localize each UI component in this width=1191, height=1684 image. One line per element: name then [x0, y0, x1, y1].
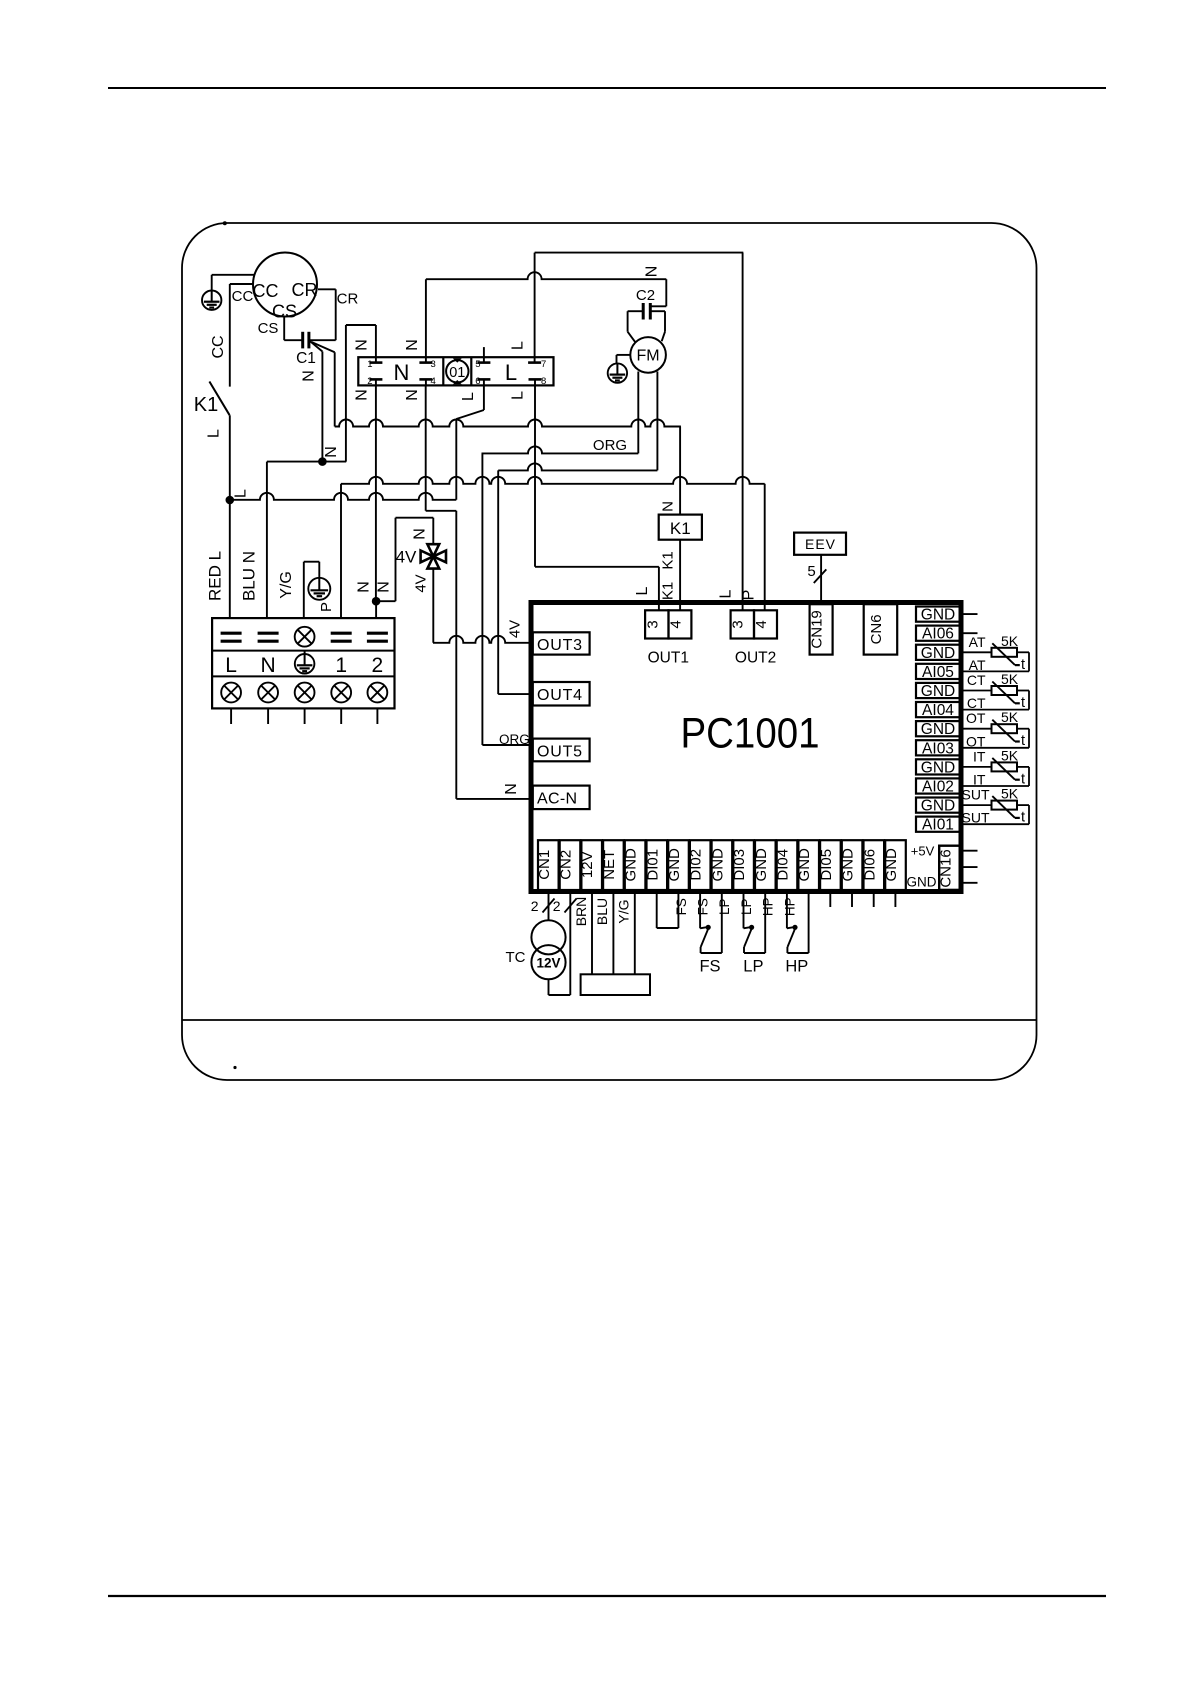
wire FM-right to OUT4 upper [498, 463, 657, 470]
pin 4 [419, 376, 435, 387]
svg-text:5K: 5K [1001, 633, 1019, 649]
pin box AI05 r3 [916, 664, 960, 681]
pin box OUT2-4 [753, 610, 777, 638]
svg-text:DI03: DI03 [731, 849, 748, 881]
svg-text:N: N [503, 783, 520, 795]
svg-text:K1: K1 [660, 551, 677, 569]
label YG pin [616, 899, 632, 923]
svg-text:t: t [1021, 810, 1025, 826]
pin box NET b3 [601, 840, 624, 890]
wire FM left down [637, 372, 639, 454]
pin box GND r8 [916, 759, 960, 776]
terminal strip N-01-L box [358, 357, 553, 385]
label N pin3 [404, 339, 421, 351]
svg-text:K1: K1 [660, 582, 677, 600]
pin box DI06 b15 [861, 840, 884, 890]
label K1 rotated lower [660, 582, 677, 600]
switch LP [743, 891, 765, 976]
pin box OUT1-3 [644, 610, 668, 638]
label BLU pin [594, 898, 610, 925]
pin box CN19 [809, 604, 833, 654]
label ORG at OUT5 [499, 732, 530, 747]
svg-text:AI04: AI04 [922, 702, 954, 719]
svg-text:ORG: ORG [499, 732, 530, 747]
svg-text:NET: NET [601, 850, 618, 880]
svg-text:DI01: DI01 [644, 849, 661, 881]
label BLU N [240, 551, 259, 601]
wire BRN [591, 891, 593, 974]
wire top bus to OUT2-3 [742, 253, 744, 611]
svg-text:AT: AT [969, 634, 986, 650]
wire FM-right vertical [497, 470, 499, 694]
terminal block body [212, 618, 394, 708]
label P rotated [318, 602, 335, 612]
wire pin6 down [456, 385, 484, 499]
page bottom rule [108, 1595, 1106, 1597]
wire TC bottom loop [549, 979, 571, 995]
terminal stubs below [231, 708, 377, 724]
wire pin8 route to OUT1-3 [535, 385, 659, 610]
terminal screws row3 [221, 683, 387, 703]
thermistor AT 5K [960, 633, 1029, 673]
wire bus L3 [230, 493, 456, 500]
svg-text:CC: CC [210, 335, 227, 358]
label 4V rotated [413, 574, 430, 592]
EEV box [794, 533, 846, 555]
svg-text:AI02: AI02 [922, 779, 954, 796]
CN16 stubs [961, 851, 978, 883]
svg-text:HP: HP [782, 897, 797, 916]
pin box CN16 [938, 846, 961, 890]
label ORG upper [593, 437, 627, 454]
label L at OUT2-3 [718, 589, 735, 598]
svg-text:N: N [356, 581, 373, 593]
label BRN [573, 897, 589, 927]
svg-text:CN1: CN1 [536, 850, 553, 880]
pin box AI02 r9 [916, 778, 960, 795]
indicator 01 circle [446, 358, 468, 384]
pin box DI04 b11 [775, 840, 798, 890]
wire CR from motor [318, 289, 336, 340]
svg-text:4: 4 [431, 376, 436, 387]
pin box CN6 [864, 604, 898, 654]
svg-text:OUT1: OUT1 [648, 650, 689, 667]
svg-text:CN2: CN2 [558, 850, 575, 880]
wire pin2 down [375, 385, 377, 601]
pin 5 [475, 347, 490, 370]
label L pin6 [460, 392, 477, 401]
connector bar [581, 974, 650, 995]
svg-text:LP: LP [739, 898, 754, 915]
wire valve down to OUT3 bus [432, 569, 434, 643]
label N valve [412, 528, 429, 540]
svg-text:t: t [1021, 733, 1025, 749]
svg-text:L: L [718, 589, 735, 598]
svg-text:5K: 5K [1001, 747, 1019, 763]
svg-text:L: L [233, 489, 250, 498]
svg-text:OT: OT [966, 733, 986, 749]
wire BLU pin [612, 891, 614, 974]
svg-text:1: 1 [367, 359, 372, 370]
page top rule [108, 87, 1106, 89]
terminal lamp symbol row1 [295, 627, 315, 647]
label N at junction dot [323, 446, 340, 458]
svg-text:GND: GND [753, 848, 770, 882]
wire pin2 to terminal 2 [375, 601, 377, 618]
svg-text:SUT: SUT [962, 810, 990, 826]
svg-text:N: N [644, 266, 661, 278]
svg-text:DI06: DI06 [861, 849, 878, 881]
pin 3 [419, 357, 435, 370]
pin box GND b6 [666, 840, 689, 890]
svg-text:GND: GND [709, 848, 726, 882]
pin box CN2 b1 [558, 840, 581, 890]
svg-text:7: 7 [541, 359, 546, 370]
svg-text:N: N [354, 339, 371, 351]
pin box CN1 b0 [536, 840, 559, 890]
wire AC-N branch [426, 511, 457, 799]
pin box GND b10 [753, 840, 776, 890]
capacitor C2 [636, 287, 655, 320]
svg-text:N: N [376, 581, 393, 593]
stub GND b14 [851, 893, 853, 907]
svg-text:FS: FS [674, 898, 689, 915]
wire BLU down [266, 462, 268, 618]
terminal clamp symbols [221, 633, 388, 641]
svg-text:BLU N: BLU N [240, 551, 259, 601]
switch HP [785, 891, 808, 976]
label N at C2 [644, 266, 661, 278]
svg-text:OUT3: OUT3 [537, 637, 583, 654]
svg-text:Y/G: Y/G [278, 571, 295, 599]
enclosure rounded border [182, 221, 1037, 1080]
wire C2 to FM right [651, 311, 665, 341]
label N pin2 [354, 389, 371, 401]
svg-text:Y/G: Y/G [616, 899, 632, 923]
wire pin4 down [425, 385, 427, 510]
pin box DI02 b7 [688, 840, 711, 890]
wire to K1 coil [679, 427, 681, 515]
junction dot pin2 [372, 597, 381, 606]
svg-text:DI05: DI05 [818, 849, 835, 881]
svg-text:OUT4: OUT4 [537, 687, 583, 704]
compressor motor M (CC/CR/CS) [253, 253, 318, 322]
relay coil K1 [659, 515, 702, 540]
svg-text:GND: GND [796, 848, 813, 882]
thermistor SUT 5K [960, 786, 1029, 826]
svg-text:FS: FS [696, 898, 711, 915]
svg-text:CS: CS [258, 320, 279, 337]
pin box DI03 b9 [731, 840, 754, 890]
slash 2 CN2 [553, 898, 577, 914]
svg-text:N: N [301, 370, 318, 382]
wire CC from motor [230, 284, 253, 387]
switch K1 contact [209, 382, 229, 501]
wire N bus to C2 [426, 272, 666, 279]
svg-text:5K: 5K [1001, 786, 1019, 802]
pin box AI04 r5 [916, 702, 960, 719]
label CS outer [258, 320, 279, 337]
label K1 contact [194, 394, 218, 416]
svg-text:FM: FM [637, 348, 660, 365]
svg-text:IT: IT [973, 748, 986, 764]
svg-text:FS: FS [699, 958, 720, 976]
label L rotated at dot [233, 489, 250, 498]
svg-text:GND: GND [921, 607, 955, 624]
label HP rotated 1 [761, 897, 776, 916]
svg-text:K1: K1 [670, 519, 691, 538]
svg-text:OT: OT [966, 710, 986, 726]
label N right of dot [376, 581, 393, 593]
svg-text:GND: GND [921, 721, 955, 738]
pin box AC-N [533, 786, 590, 810]
svg-text:2: 2 [372, 654, 384, 677]
pin 7 [528, 357, 546, 370]
svg-text:LP: LP [717, 898, 732, 915]
label CR outer [337, 291, 359, 308]
label N at K1 coil [660, 501, 677, 512]
wire top bus L [535, 252, 744, 254]
label HP rotated 2 [782, 897, 797, 916]
pin box GND b14 [840, 840, 863, 890]
wire L down to terminal [229, 500, 231, 618]
svg-text:DI02: DI02 [688, 849, 705, 881]
svg-text:4V: 4V [396, 548, 417, 567]
label N at AC-N [503, 783, 520, 795]
stub GND r0 [960, 613, 978, 615]
wire OUT5 feed ORG [482, 744, 531, 746]
pin box DI05 b13 [818, 840, 841, 890]
capacitor C1 [296, 332, 336, 367]
transformer TC [506, 920, 566, 979]
label K1 rotated upper [660, 551, 677, 569]
svg-text:12V: 12V [579, 851, 596, 878]
wire pin7 up [534, 253, 536, 358]
pin box OUT5 [533, 739, 590, 762]
wire EEV to CN19 [820, 555, 822, 602]
wire C2 to FM left [628, 311, 643, 342]
label FS rotated 1 [674, 898, 689, 915]
wire busL2 to OUT2-4 [764, 484, 766, 611]
pin box GND b12 [796, 840, 819, 890]
pin 1 [367, 357, 382, 370]
svg-text:AI05: AI05 [922, 664, 954, 681]
ground PE fan [608, 355, 631, 383]
svg-text:AI01: AI01 [922, 817, 954, 834]
svg-text:GND: GND [907, 875, 937, 890]
pin box DI01 b5 [644, 840, 667, 890]
pin box OUT1-4 [667, 610, 691, 638]
svg-text:OUT2: OUT2 [735, 650, 776, 667]
label L pin7 [510, 341, 527, 350]
svg-text:1: 1 [335, 654, 347, 677]
svg-text:N: N [660, 501, 677, 512]
svg-text:5K: 5K [1001, 709, 1019, 725]
stub AI06 r1 [960, 632, 978, 634]
svg-text:N: N [412, 528, 429, 540]
pin 6 [475, 376, 490, 387]
pin box GND b16 [883, 840, 906, 890]
svg-text:GND: GND [921, 798, 955, 815]
svg-text:N: N [323, 446, 340, 458]
label CC outer [232, 288, 254, 305]
label RED L [206, 551, 225, 601]
slash 2 CN1 [531, 898, 555, 914]
label CC rotated [210, 335, 227, 358]
thermistor IT 5K [960, 747, 1029, 787]
svg-text:5: 5 [475, 359, 480, 370]
svg-text:LP: LP [743, 958, 763, 976]
terminal PE symbol [295, 651, 315, 674]
pin box OUT4 [533, 682, 590, 706]
wire C1 to N bus [312, 342, 335, 427]
svg-text:2: 2 [367, 376, 372, 387]
pin box GND r10 [916, 798, 960, 815]
svg-text:t: t [1021, 695, 1025, 711]
svg-text:4V: 4V [413, 574, 430, 592]
ground PE compressor [202, 275, 254, 310]
svg-text:2: 2 [553, 898, 561, 914]
wire bus N1 [335, 420, 681, 427]
switch FS [699, 891, 721, 976]
wire CN1 to TC [548, 891, 550, 921]
svg-text:CR: CR [337, 291, 359, 308]
wire pin3 up [425, 279, 427, 357]
label LP rotated 2 [739, 898, 754, 915]
svg-text:IT: IT [973, 772, 986, 788]
svg-text:L: L [206, 429, 223, 438]
svg-text:CT: CT [967, 695, 986, 711]
svg-text:GND: GND [921, 683, 955, 700]
svg-text:CT: CT [967, 672, 986, 688]
thermistor OT 5K [960, 709, 1029, 749]
terminal labels row2 [225, 654, 383, 677]
svg-text:GND: GND [840, 848, 857, 882]
svg-text:CC: CC [253, 281, 279, 301]
svg-text:L: L [460, 392, 477, 401]
svg-text:SUT: SUT [962, 787, 990, 803]
svg-text:4: 4 [667, 620, 684, 628]
svg-text:C2: C2 [636, 287, 655, 304]
svg-text:6: 6 [475, 376, 480, 387]
wire 4V loop [376, 518, 433, 602]
wire ORG upper [482, 446, 639, 453]
wire C1 to N dot [310, 341, 322, 461]
svg-text:3: 3 [644, 620, 661, 628]
svg-text:HP: HP [761, 897, 776, 916]
svg-text:N: N [261, 654, 276, 677]
pin box AI03 r7 [916, 740, 960, 757]
label N left of dot [356, 581, 373, 593]
svg-text:GND: GND [666, 848, 683, 882]
wire CN2 to TC [569, 891, 571, 995]
svg-text:TC: TC [506, 949, 526, 966]
svg-text:N: N [404, 389, 421, 401]
wire CS from motor [284, 317, 302, 341]
fan motor FM [630, 337, 666, 373]
label +5V [911, 844, 935, 859]
svg-text:L: L [505, 360, 517, 385]
label 4V at OUT3 [507, 620, 524, 638]
svg-text:3: 3 [431, 359, 436, 370]
svg-text:P: P [741, 590, 758, 601]
junction dot N [318, 457, 327, 466]
svg-text:N: N [354, 389, 371, 401]
pin box 12V b2 [579, 840, 602, 890]
wire OUT4 feed [498, 693, 531, 695]
wire bus L2 [341, 477, 765, 484]
wire FM right down [656, 372, 658, 471]
pin box GND r2 [916, 645, 960, 662]
label N pin1 [354, 339, 371, 351]
pin box GND r6 [916, 721, 960, 738]
svg-text:AI06: AI06 [922, 626, 954, 643]
svg-text:L: L [510, 341, 527, 350]
svg-text:RED L: RED L [206, 551, 225, 601]
label L pin8 [510, 391, 527, 400]
thermistor CT 5K [960, 671, 1029, 711]
pin box GND r4 [916, 683, 960, 700]
wire YG pin [634, 891, 636, 974]
label OUT2 [735, 650, 776, 667]
wire N link to BLU [267, 461, 346, 463]
label OUT1 [648, 650, 689, 667]
controller PC1001 outline [531, 603, 961, 892]
svg-text:OUT5: OUT5 [537, 743, 583, 760]
stub GND b16 [894, 893, 896, 907]
label 5 wires [807, 563, 826, 583]
svg-text:ORG: ORG [593, 437, 627, 454]
label YG [278, 571, 295, 599]
svg-text:CR: CR [292, 280, 318, 300]
svg-text:CN16: CN16 [938, 849, 955, 887]
svg-text:L: L [634, 586, 651, 595]
pin box GND b8 [709, 840, 732, 890]
wire AC-N feed [456, 798, 531, 800]
label L rotated k1 [206, 429, 223, 438]
svg-text:L: L [510, 391, 527, 400]
svg-text:3: 3 [730, 620, 747, 628]
svg-text:CN6: CN6 [868, 614, 885, 644]
pin box AI06 r1 [916, 626, 960, 643]
wire K1 coil to OUT1-4 [679, 540, 681, 611]
svg-text:EEV: EEV [805, 536, 836, 552]
label GND corner [907, 875, 937, 890]
svg-text:N: N [394, 360, 410, 385]
svg-text:AC-N: AC-N [537, 790, 577, 807]
stub DI06 [873, 893, 875, 907]
stub DI05 [829, 893, 831, 907]
pin box OUT3 [533, 632, 590, 654]
svg-text:PC1001: PC1001 [681, 711, 820, 758]
svg-text:01: 01 [449, 365, 465, 381]
svg-text:GND: GND [883, 848, 900, 882]
svg-text:CN19: CN19 [809, 610, 826, 648]
svg-text:K1: K1 [194, 394, 218, 416]
label FS rotated 2 [696, 898, 711, 915]
pin box AI01 r11 [916, 817, 960, 834]
label L at OUT1-3 [634, 586, 651, 595]
pin box GND r0 [916, 607, 960, 624]
label LP rotated 1 [717, 898, 732, 915]
wire ORG vertical [481, 453, 483, 745]
svg-text:2: 2 [531, 898, 539, 914]
label P at OUT2-4 [741, 590, 758, 601]
svg-text:BLU: BLU [594, 898, 610, 925]
svg-text:+5V: +5V [911, 844, 935, 859]
svg-text:5K: 5K [1001, 671, 1019, 687]
jumper DI01-GND [657, 891, 679, 928]
